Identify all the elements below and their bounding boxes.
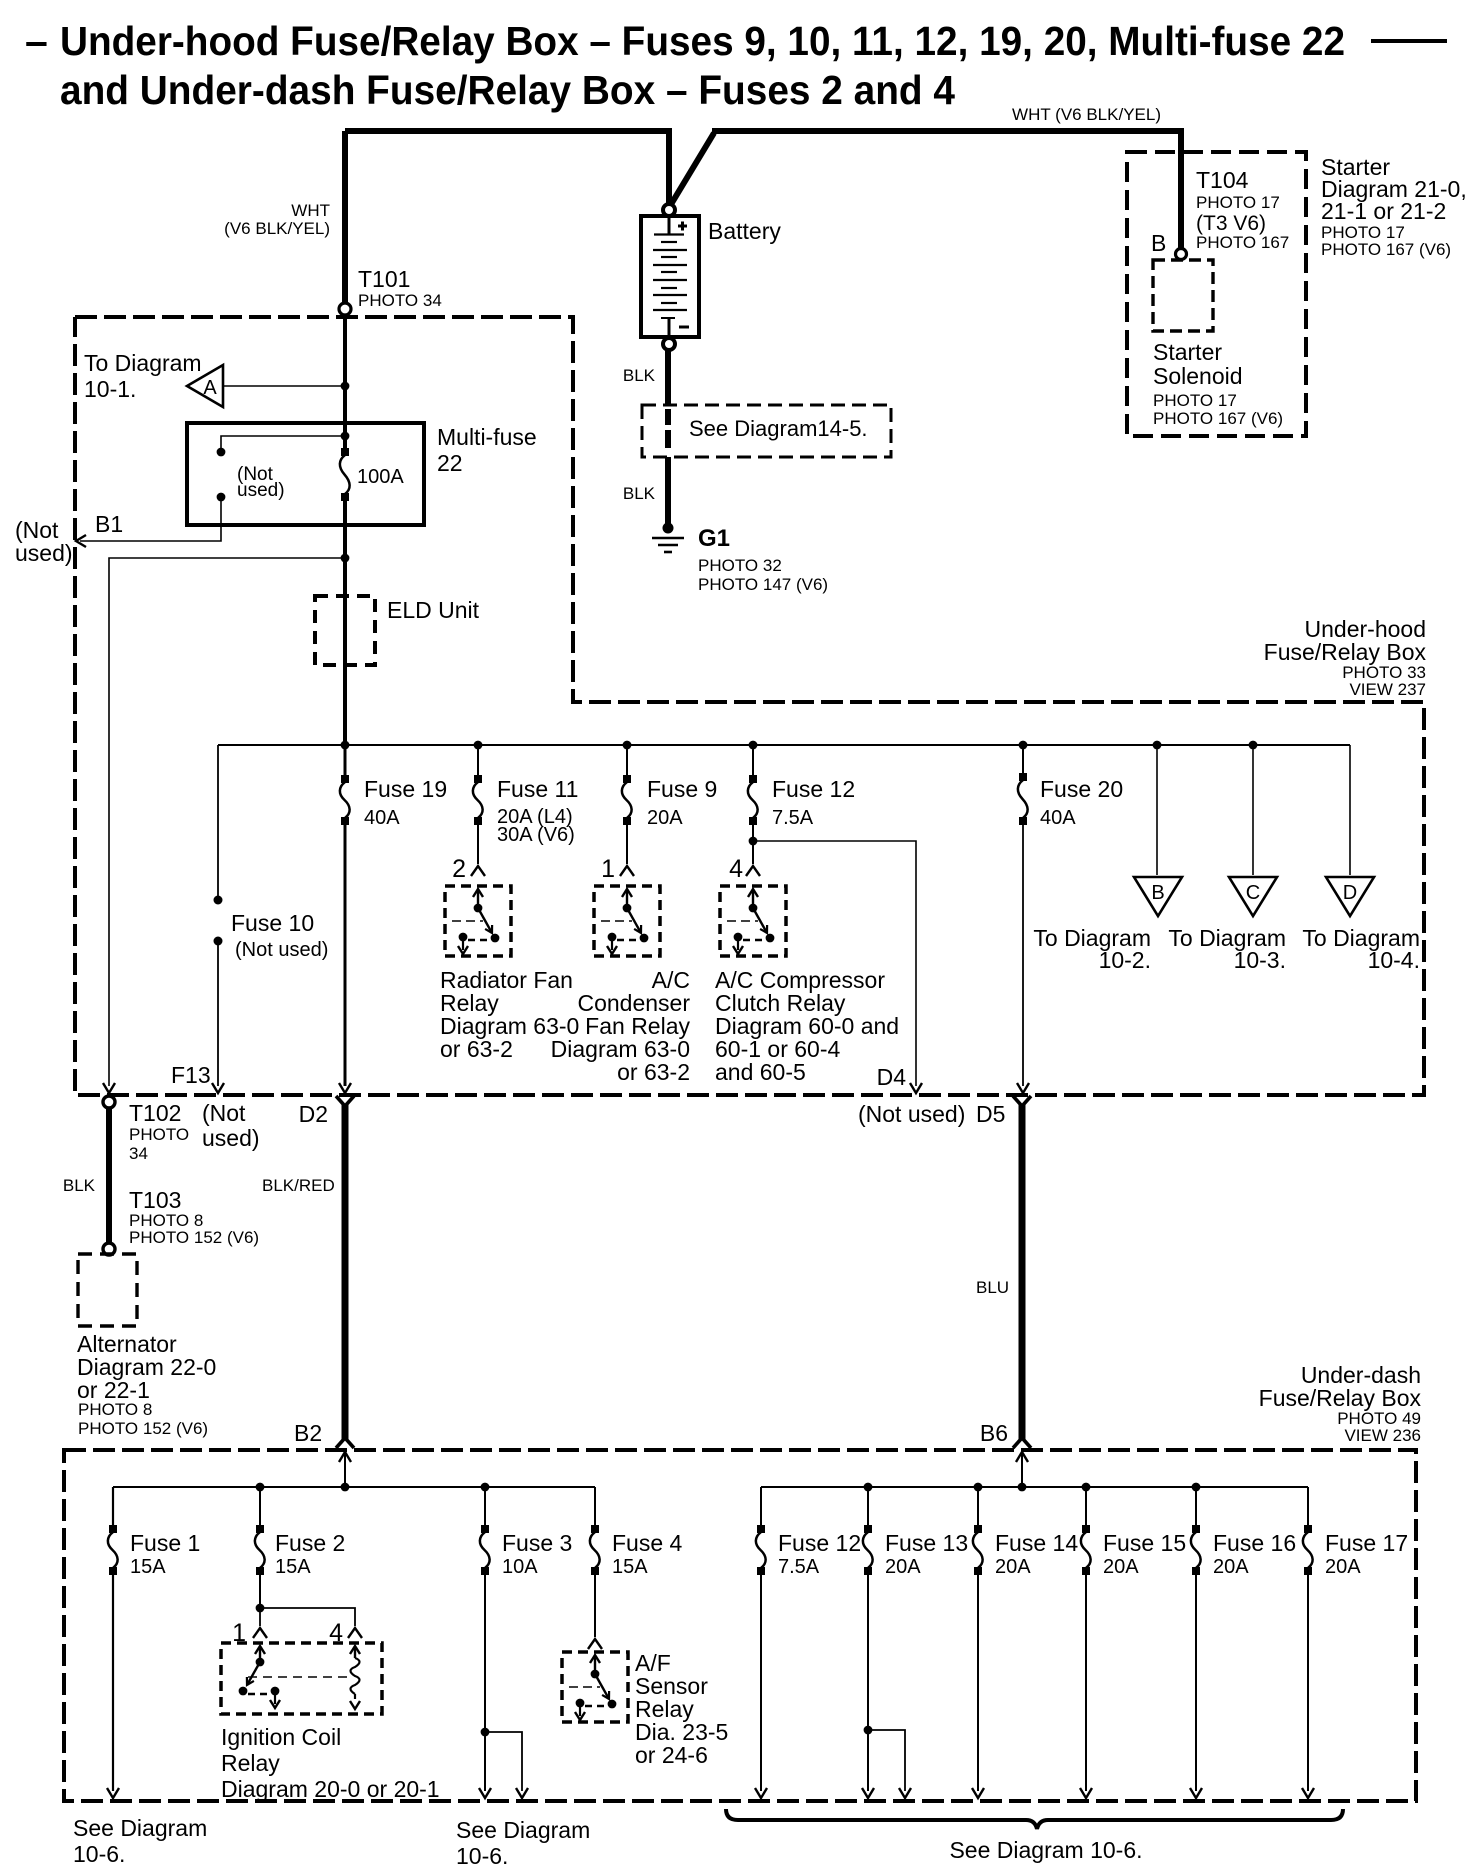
- svg-text:and Under-dash Fuse/Relay Box: and Under-dash Fuse/Relay Box – Fuses 2 …: [60, 67, 955, 113]
- wire BLK battery to diagram 14-5: [665, 350, 671, 404]
- svg-text:(T3 V6): (T3 V6): [1196, 212, 1266, 235]
- wire F13 elbow: [868, 1730, 911, 1798]
- svg-text:T102: T102: [129, 1100, 181, 1126]
- svg-text:To Diagram: To Diagram: [84, 350, 202, 376]
- pin 1 ignition relay: [232, 1619, 267, 1647]
- svg-text:Fuse 9: Fuse 9: [647, 776, 717, 802]
- pin a/f sensor relay: [588, 1639, 602, 1649]
- svg-text:PHOTO 152 (V6): PHOTO 152 (V6): [78, 1419, 208, 1438]
- svg-text:Fuse 19: Fuse 19: [364, 776, 447, 802]
- svg-text:Fuse 2: Fuse 2: [275, 1530, 345, 1556]
- pin 4 ignition relay: [329, 1619, 362, 1647]
- fuse 4 15A: [590, 1487, 683, 1637]
- svg-text:VIEW 236: VIEW 236: [1344, 1426, 1421, 1445]
- svg-text:See Diagram14-5.: See Diagram14-5.: [689, 416, 868, 441]
- junction bus-F20: [1019, 741, 1028, 750]
- svg-text:used): used): [202, 1125, 260, 1151]
- svg-text:20A: 20A: [647, 807, 683, 829]
- brace see diagram 10-6 right: [726, 1809, 1343, 1863]
- wire WHT feed right segment to T104: [670, 131, 1181, 249]
- terminal D4: [858, 1064, 965, 1127]
- svg-text:BLK: BLK: [623, 366, 656, 385]
- fuse fuse14 20A: [972, 1487, 1078, 1798]
- label B6: [980, 1420, 1008, 1446]
- fuse 19 40A: [340, 745, 447, 1086]
- wire F2 to ignition relay pins: [260, 1608, 355, 1626]
- svg-text:F13: F13: [171, 1062, 211, 1088]
- junction bus-B2: [341, 1483, 350, 1492]
- svg-text:T104: T104: [1196, 167, 1249, 193]
- svg-text:used): used): [237, 480, 285, 501]
- connector T102: [103, 1096, 189, 1163]
- title: [25, 18, 1447, 113]
- svg-text:B6: B6: [980, 1420, 1008, 1446]
- ground G1: [652, 523, 828, 595]
- svg-text:BLU: BLU: [976, 1278, 1009, 1297]
- a/c compressor clutch relay: [720, 886, 786, 956]
- starter solenoid: [1153, 260, 1283, 428]
- fuse fuse17 20A: [1302, 1487, 1408, 1798]
- starter solenoid outer box: [1127, 152, 1306, 436]
- svg-text:30A (V6): 30A (V6): [497, 824, 575, 846]
- junction bus-B: [1153, 741, 1162, 750]
- svg-text:Multi-fuse: Multi-fuse: [437, 424, 537, 450]
- label ignition coil relay: [221, 1724, 440, 1802]
- svg-text:B: B: [1151, 230, 1166, 256]
- triangle connector B: [1033, 745, 1182, 973]
- svg-text:10-6.: 10-6.: [456, 1843, 508, 1868]
- fuse 9 20A: [622, 745, 717, 864]
- svg-text:BLK/RED: BLK/RED: [262, 1176, 335, 1195]
- svg-text:20A: 20A: [1103, 1556, 1139, 1578]
- pin 1 condenser relay: [601, 855, 634, 883]
- fuse multi-fuse 22 100A: [340, 448, 405, 501]
- fuse fuse16 20A: [1190, 1487, 1296, 1798]
- svg-text:VIEW 237: VIEW 237: [1349, 680, 1426, 699]
- svg-text:4: 4: [729, 855, 743, 883]
- junction main-T102-wire: [341, 554, 350, 563]
- svg-text:See Diagram: See Diagram: [456, 1817, 590, 1843]
- svg-text:D2: D2: [299, 1101, 328, 1127]
- svg-text:T101: T101: [358, 266, 410, 292]
- junction multi-fuse elbow: [341, 432, 350, 441]
- svg-text:20A: 20A: [1325, 1556, 1361, 1578]
- connector T104: [1176, 167, 1290, 260]
- label see diagram 10-6 left: [73, 1815, 207, 1867]
- wire BLK/RED D2 to B2: [336, 1096, 354, 1448]
- svg-text:10-3.: 10-3.: [1234, 947, 1286, 973]
- junction bus-F14: [974, 1483, 983, 1492]
- svg-text:(Not: (Not: [202, 1100, 246, 1126]
- svg-text:Fuse 11: Fuse 11: [497, 776, 578, 802]
- fuse 2 15A: [255, 1487, 345, 1608]
- terminal B6 arrow: [1016, 1452, 1028, 1487]
- svg-text:Under-hood Fuse/Relay Box – Fu: Under-hood Fuse/Relay Box – Fuses 9, 10,…: [60, 18, 1345, 64]
- svg-text:Fuse 10: Fuse 10: [231, 910, 314, 936]
- svg-text:22: 22: [437, 450, 463, 476]
- fuse 12 7.5A: [748, 745, 855, 864]
- a/f sensor relay: [562, 1652, 628, 1722]
- svg-text:C: C: [1246, 882, 1260, 904]
- terminal B2 arrow: [339, 1452, 351, 1487]
- fuse fuse15 20A: [1080, 1487, 1186, 1798]
- svg-text:40A: 40A: [364, 807, 400, 829]
- wire under-hood bus: [218, 744, 1350, 746]
- wire BLU D5 to B6: [1013, 1096, 1031, 1448]
- junction bus-F16: [1192, 1483, 1201, 1492]
- svg-text:and 60-5: and 60-5: [715, 1059, 806, 1085]
- fuse fuse12 7.5A: [755, 1487, 861, 1798]
- junction bus-F19: [341, 741, 350, 750]
- svg-text:PHOTO 32: PHOTO 32: [698, 556, 782, 575]
- fuse 20 40A: [1018, 745, 1123, 1086]
- svg-text:20A: 20A: [885, 1556, 921, 1578]
- terminal F13: [171, 1062, 211, 1088]
- junction bus-F3: [481, 1483, 490, 1492]
- label F13 not used: [202, 1100, 260, 1151]
- pin 4 compressor relay: [729, 855, 760, 883]
- svg-text:7.5A: 7.5A: [778, 1556, 820, 1578]
- svg-text:Fuse 16: Fuse 16: [1213, 1530, 1296, 1556]
- svg-text:Fuse/Relay Box: Fuse/Relay Box: [1259, 1385, 1422, 1411]
- svg-text:(V6 BLK/YEL): (V6 BLK/YEL): [224, 219, 330, 238]
- battery: [641, 216, 699, 337]
- battery negative terminal: [663, 338, 675, 350]
- wire main vertical WHT: [342, 131, 348, 303]
- junction F12-D4: [749, 837, 758, 846]
- under-hood fuse/relay box outline: [75, 317, 1424, 1095]
- svg-text:or 63-2: or 63-2: [440, 1036, 513, 1062]
- label D2 BLK/RED: [262, 1176, 335, 1195]
- svg-text:ELD Unit: ELD Unit: [387, 597, 480, 623]
- svg-text:34: 34: [129, 1144, 148, 1163]
- connector T103: [103, 1187, 259, 1255]
- fuse 10 not used: [212, 745, 328, 1093]
- junction bus-F9: [623, 741, 632, 750]
- label a/c condenser fan relay: [551, 967, 691, 1085]
- svg-text:10A: 10A: [502, 1556, 538, 1578]
- wire main multi-fuse to bus: [343, 497, 347, 745]
- svg-text:100A: 100A: [357, 466, 404, 488]
- svg-text:10-1.: 10-1.: [84, 376, 136, 402]
- svg-text:PHOTO 34: PHOTO 34: [358, 291, 442, 310]
- svg-text:Battery: Battery: [708, 218, 781, 244]
- wire under-dash left bus: [113, 1486, 595, 1488]
- svg-text:A: A: [203, 377, 217, 399]
- svg-text:7.5A: 7.5A: [772, 807, 814, 829]
- wire to D4: [753, 841, 922, 1093]
- svg-text:–: –: [25, 18, 48, 64]
- ignition coil relay: [221, 1643, 382, 1714]
- wire BLK to G1: [665, 457, 671, 524]
- battery positive terminal: [663, 204, 675, 216]
- svg-text:Fuse 4: Fuse 4: [612, 1530, 683, 1556]
- svg-text:Starter: Starter: [1153, 339, 1222, 365]
- triangle connector D: [1302, 745, 1420, 973]
- label BLK upper: [623, 366, 656, 385]
- wire F3 elbow: [485, 1732, 528, 1798]
- label D5: [976, 1101, 1005, 1127]
- radiator fan relay: [445, 886, 511, 956]
- svg-text:1: 1: [601, 855, 615, 883]
- junction bus-F11: [474, 741, 483, 750]
- wire under-dash right bus: [761, 1486, 1308, 1488]
- svg-text:WHT: WHT: [291, 201, 330, 220]
- ELD unit: [315, 596, 480, 665]
- wire WHT feed left segment: [345, 131, 669, 204]
- svg-text:Fuse 12: Fuse 12: [772, 776, 855, 802]
- svg-text:B2: B2: [294, 1420, 322, 1446]
- svg-text:D5: D5: [976, 1101, 1005, 1127]
- svg-text:PHOTO 17: PHOTO 17: [1153, 391, 1237, 410]
- label a/c compressor clutch relay: [715, 967, 899, 1085]
- node A to diagram 10-1: [84, 350, 343, 407]
- svg-text:D4: D4: [877, 1064, 907, 1090]
- fuse 1 15A: [107, 1487, 200, 1798]
- svg-text:20A: 20A: [995, 1556, 1031, 1578]
- label a/f sensor relay: [635, 1650, 728, 1768]
- svg-text:D: D: [1343, 882, 1357, 904]
- svg-text:See Diagram: See Diagram: [73, 1815, 207, 1841]
- junction F13 split: [864, 1726, 873, 1735]
- terminal D5 arrow: [1017, 1083, 1029, 1093]
- pin 2 radiator relay: [452, 855, 485, 883]
- svg-text:(Not used): (Not used): [858, 1101, 965, 1127]
- svg-text:21-1 or 21-2: 21-1 or 21-2: [1321, 198, 1446, 224]
- label B pin: [1151, 230, 1166, 256]
- see diagram 14-5 box: [642, 405, 891, 457]
- svg-text:or 63-2: or 63-2: [617, 1059, 690, 1085]
- label BLK lower: [623, 484, 656, 503]
- label BLU: [976, 1278, 1009, 1297]
- label radiator fan relay: [440, 967, 579, 1062]
- svg-text:Fuse 12: Fuse 12: [778, 1530, 861, 1556]
- svg-text:Fuse/Relay Box: Fuse/Relay Box: [1264, 639, 1427, 665]
- svg-text:Fuse 20: Fuse 20: [1040, 776, 1123, 802]
- svg-text:Fuse 3: Fuse 3: [502, 1530, 572, 1556]
- svg-text:PHOTO 167 (V6): PHOTO 167 (V6): [1153, 409, 1283, 428]
- svg-text:G1: G1: [698, 525, 730, 552]
- svg-text:PHOTO 167: PHOTO 167: [1196, 233, 1289, 252]
- fuse 11: [473, 745, 579, 864]
- junction bus-F15: [1082, 1483, 1091, 1492]
- svg-text:Ignition Coil: Ignition Coil: [221, 1724, 341, 1750]
- junction bus-F2: [256, 1483, 265, 1492]
- connector T101: [339, 266, 442, 315]
- label B2: [294, 1420, 322, 1446]
- svg-text:PHOTO 8: PHOTO 8: [78, 1400, 152, 1419]
- svg-text:15A: 15A: [612, 1556, 648, 1578]
- label WHT (V6 BLK/YEL) top: [1012, 105, 1161, 124]
- label BLK alternator: [63, 1176, 96, 1195]
- svg-text:Diagram 20-0 or 20-1: Diagram 20-0 or 20-1: [221, 1776, 440, 1802]
- svg-text:used): used): [15, 540, 73, 566]
- svg-text:10-2.: 10-2.: [1099, 947, 1151, 973]
- wire BLK to alternator: [106, 1108, 112, 1243]
- junction F3 split: [481, 1728, 490, 1737]
- svg-text:Solenoid: Solenoid: [1153, 363, 1243, 389]
- svg-text:PHOTO 147 (V6): PHOTO 147 (V6): [698, 575, 828, 594]
- svg-text:15A: 15A: [275, 1556, 311, 1578]
- svg-text:Fuse 15: Fuse 15: [1103, 1530, 1186, 1556]
- svg-text:Fuse 13: Fuse 13: [885, 1530, 968, 1556]
- svg-text:2: 2: [452, 855, 466, 883]
- svg-text:PHOTO 17: PHOTO 17: [1196, 193, 1280, 212]
- label under-hood fuse/relay box: [1264, 616, 1427, 699]
- svg-text:(Not used): (Not used): [235, 939, 328, 961]
- junction bus-F13: [864, 1483, 873, 1492]
- wire T101 to multi-fuse: [343, 315, 347, 452]
- svg-text:BLK: BLK: [623, 484, 656, 503]
- svg-text:T103: T103: [129, 1187, 181, 1213]
- junction bus-C: [1249, 741, 1258, 750]
- junction main-A: [341, 382, 350, 391]
- wire to T102: [103, 558, 345, 1093]
- fuse 3 10A: [479, 1487, 572, 1798]
- multi-fuse not-used pins: [217, 436, 343, 501]
- triangle connector C: [1168, 745, 1286, 973]
- multi-fuse 22 box: [187, 423, 537, 525]
- svg-text:40A: 40A: [1040, 807, 1076, 829]
- svg-text:BLK: BLK: [63, 1176, 96, 1195]
- junction bus-F12: [749, 741, 758, 750]
- label WHT (V6 BLK/YEL) left: [224, 201, 330, 238]
- svg-text:10-4.: 10-4.: [1368, 947, 1420, 973]
- svg-text:or 24-6: or 24-6: [635, 1742, 708, 1768]
- svg-text:WHT (V6 BLK/YEL): WHT (V6 BLK/YEL): [1012, 105, 1161, 124]
- terminal D2 arrow: [299, 1083, 351, 1127]
- label under-dash fuse/relay box: [1259, 1362, 1422, 1445]
- svg-text:15A: 15A: [130, 1556, 166, 1578]
- svg-text:PHOTO 152 (V6): PHOTO 152 (V6): [129, 1228, 259, 1247]
- svg-text:B: B: [1151, 882, 1164, 904]
- alternator: [77, 1254, 216, 1438]
- svg-text:Fuse 17: Fuse 17: [1325, 1530, 1408, 1556]
- fuse fuse13 20A: [862, 1487, 968, 1798]
- label Battery: [708, 218, 781, 244]
- svg-text:10-6.: 10-6.: [73, 1841, 125, 1867]
- svg-text:PHOTO 167 (V6): PHOTO 167 (V6): [1321, 240, 1451, 259]
- label see diagram 10-6 mid: [456, 1817, 590, 1868]
- svg-text:Fuse 14: Fuse 14: [995, 1530, 1078, 1556]
- svg-text:Relay: Relay: [221, 1750, 280, 1776]
- svg-text:B1: B1: [95, 511, 123, 537]
- junction F2 split: [256, 1604, 265, 1613]
- label starter diagram ref: [1321, 154, 1467, 259]
- wire B1 not used: [15, 497, 221, 566]
- svg-text:Fuse 1: Fuse 1: [130, 1530, 200, 1556]
- svg-text:20A: 20A: [1213, 1556, 1249, 1578]
- a/c condenser fan relay: [594, 886, 660, 956]
- svg-text:See Diagram 10-6.: See Diagram 10-6.: [949, 1837, 1142, 1863]
- junction bus-B6: [1018, 1483, 1027, 1492]
- svg-text:PHOTO: PHOTO: [129, 1125, 189, 1144]
- under-dash fuse/relay box outline: [64, 1450, 1416, 1801]
